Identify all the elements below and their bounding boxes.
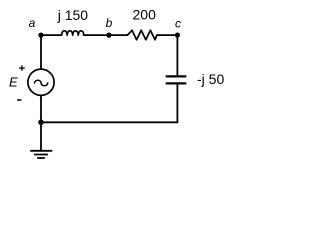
svg-text:c: c xyxy=(175,16,181,30)
wire: node a down to source top xyxy=(40,35,42,69)
ground bar 1 xyxy=(31,150,52,152)
plus sign of source xyxy=(20,66,25,71)
inductor j150 xyxy=(62,31,84,35)
svg-text:a: a xyxy=(29,16,36,30)
AC source sine symbol xyxy=(35,80,48,85)
wire: source bottom to ground junction xyxy=(40,95,42,122)
wire: inductor to node b to resistor xyxy=(84,34,128,36)
minus sign of source xyxy=(18,99,21,101)
wire: node c down to capacitor top xyxy=(176,35,178,75)
resistor 200 xyxy=(128,30,157,40)
ground bar 2 xyxy=(35,154,48,156)
ground bar 3 xyxy=(38,157,44,159)
ground junction dot xyxy=(38,120,44,126)
capacitor -j50 top plate xyxy=(167,75,186,77)
capacitor -j50 bottom plate xyxy=(167,82,186,84)
node a junction dot xyxy=(38,33,43,38)
AC voltage source E circle xyxy=(28,69,54,95)
node c junction dot xyxy=(175,33,180,38)
wire: bottom return, junction to right xyxy=(41,121,177,123)
svg-text:-j 50: -j 50 xyxy=(197,71,224,87)
node b junction dot xyxy=(106,33,111,38)
wire: node a to inductor xyxy=(41,34,62,36)
wire: resistor to node c xyxy=(157,34,178,36)
ground stem xyxy=(40,122,42,151)
wire: capacitor bottom to bottom wire xyxy=(176,85,178,123)
svg-text:E: E xyxy=(9,75,18,90)
svg-text:b: b xyxy=(106,16,113,30)
svg-text:j 150: j 150 xyxy=(57,7,89,23)
svg-text:200: 200 xyxy=(133,7,157,23)
